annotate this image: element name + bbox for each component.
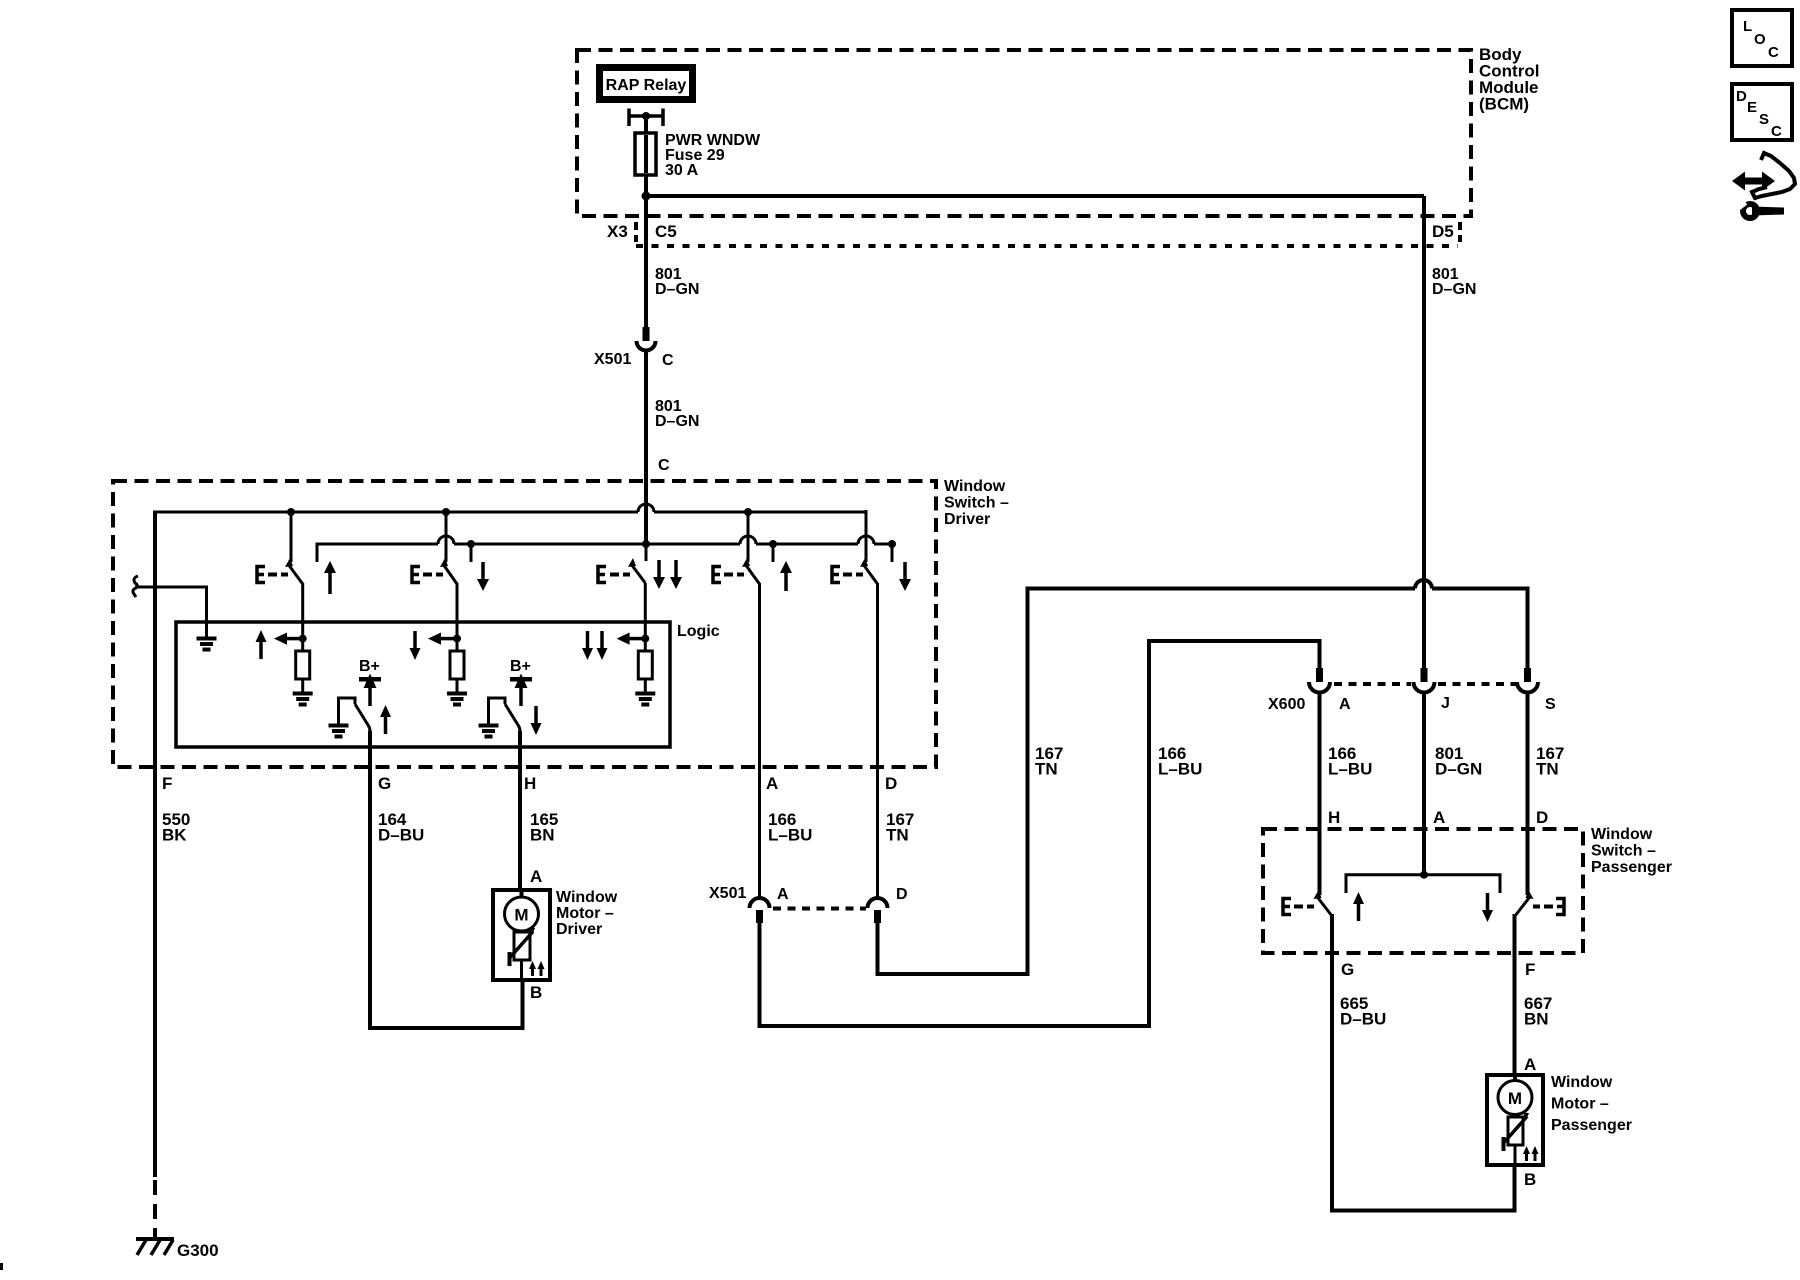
- Logic box: [176, 622, 670, 747]
- arrow up (logic 1): [256, 630, 267, 659]
- adjust icon double arrow: [1732, 172, 1775, 191]
- svg-text:G: G: [1341, 960, 1354, 979]
- svg-text:C: C: [1768, 44, 1779, 61]
- connector X501 pin A (male pin): [756, 910, 763, 923]
- arrow up (output G): [380, 705, 391, 734]
- connector X600 pin J (female cup): [1414, 682, 1435, 693]
- connector X600 link dashes J-S: [1438, 682, 1516, 686]
- junction dot logic input 2: [453, 635, 461, 643]
- resistor R1: [296, 651, 310, 679]
- svg-text:F: F: [1525, 960, 1535, 979]
- switch S2 label E: [412, 567, 443, 583]
- svg-text:L–BU: L–BU: [768, 826, 812, 845]
- switch SP2 label E (mirrored): [1533, 899, 1564, 915]
- connector X600 pin S (male pin): [1524, 668, 1531, 682]
- svg-text:A: A: [1339, 696, 1351, 713]
- switch S1 drop from bus B1: [290, 512, 293, 562]
- svg-text:B: B: [530, 983, 542, 1002]
- junction dot bus B2 stub 2: [769, 540, 777, 548]
- svg-text:Window: Window: [556, 889, 618, 906]
- svg-text:TN: TN: [1035, 760, 1058, 779]
- arrow down (S2 function): [477, 562, 489, 591]
- motor driver direction arrows: [529, 961, 545, 976]
- svg-text:O: O: [1754, 31, 1766, 48]
- svg-text:D–GN: D–GN: [1435, 760, 1482, 779]
- svg-text:M: M: [514, 906, 528, 925]
- svg-text:A: A: [766, 774, 778, 793]
- passenger feed bar from 801: [1346, 875, 1500, 893]
- connector X600 pin A (female cup): [1309, 682, 1330, 693]
- page corner mark: [0, 1263, 3, 1270]
- svg-text:A: A: [530, 867, 542, 886]
- wire 801 D-GN right drop from D5 to X600: [1422, 246, 1426, 668]
- svg-text:BN: BN: [530, 826, 555, 845]
- svg-text:D5: D5: [1432, 222, 1454, 241]
- wire S3 arm to logic input: [644, 583, 647, 651]
- wire D output (167) to X501: [876, 583, 879, 899]
- wire 166 L-BU run from X501-A to X600-A: [760, 641, 1320, 1026]
- motor M passenger (circle): [1498, 1075, 1532, 1115]
- arrows double-down (logic 3 express): [582, 631, 608, 660]
- switch S2 drop from bus B1 (under B2 hop): [445, 512, 448, 562]
- svg-text:RAP Relay: RAP Relay: [606, 77, 687, 94]
- RAP relay output terminal bracket: [629, 109, 663, 127]
- svg-text:TN: TN: [886, 826, 909, 845]
- connector X501 pin A (female cup): [750, 898, 770, 908]
- switch S4 arm: [742, 558, 760, 584]
- svg-text:Window: Window: [1591, 826, 1653, 843]
- svg-text:30 A: 30 A: [665, 162, 699, 179]
- ground (logic R3): [635, 694, 655, 705]
- svg-text:X501: X501: [709, 885, 746, 902]
- svg-text:B+: B+: [359, 658, 380, 675]
- wire A output (166) to X501: [758, 583, 761, 899]
- arrows double-down (S3 express function): [653, 560, 682, 589]
- wire label 801 D-GN (right): [1432, 266, 1476, 298]
- wire 801 D-GN below X600-J: [1422, 693, 1426, 875]
- svg-text:D: D: [896, 886, 908, 903]
- svg-text:D: D: [885, 774, 897, 793]
- LOC reference box: [1732, 10, 1792, 66]
- svg-text:S: S: [1545, 696, 1556, 713]
- junction dot bus B2 stub 1: [467, 540, 475, 548]
- resistor R2: [450, 651, 464, 679]
- switch S5 label E: [832, 567, 863, 583]
- svg-text:B: B: [1524, 1170, 1536, 1189]
- wire G passenger output (665): [1332, 914, 1515, 1211]
- wire F dashed lower section: [153, 1180, 157, 1240]
- svg-text:E: E: [1747, 99, 1757, 116]
- wire label 165 BN: [530, 810, 558, 845]
- wire label 167 TN: [886, 810, 914, 845]
- wire clip line to internal ground: [135, 587, 207, 637]
- switch S5 arm: [860, 558, 878, 584]
- svg-text:D–GN: D–GN: [655, 281, 699, 298]
- svg-text:A: A: [777, 886, 789, 903]
- switch S3 arm (express): [628, 558, 645, 583]
- bus B1 feed bus (hops over wire C at x=646): [155, 504, 866, 512]
- motor label Window Motor - Passenger: [1551, 1074, 1632, 1134]
- wire label 801 D-GN (left upper): [655, 266, 699, 298]
- svg-text:Passenger: Passenger: [1551, 1117, 1632, 1134]
- ground G300 (chassis): [136, 1239, 174, 1255]
- wire S1 arm to logic input: [301, 583, 304, 651]
- wire C drop through bus B1 to bus B2: [644, 481, 648, 544]
- svg-text:D: D: [1736, 88, 1747, 105]
- wire label 665 D-BU: [1340, 994, 1386, 1029]
- arrow up (S4 function): [780, 561, 792, 591]
- wire resistor R1 to ground: [301, 679, 304, 692]
- switch S4 drop from bus B1 (under B2 hop): [747, 512, 750, 562]
- svg-text:Switch –: Switch –: [1591, 843, 1656, 860]
- connector divider at D5: [1458, 222, 1462, 242]
- wire 167 TN run from X501-D to X600-S (hops over 801 drop): [878, 580, 1528, 974]
- switch S4 label E: [713, 567, 744, 583]
- svg-text:A: A: [1433, 808, 1445, 827]
- motor driver thermistor (circuit breaker): [510, 928, 536, 981]
- switch SG (logic output G): [339, 698, 371, 731]
- fuse value label: [665, 132, 761, 179]
- svg-text:D–GN: D–GN: [655, 413, 699, 430]
- wire label 166 L-BU: [768, 810, 812, 845]
- ground (driver switch internal, clip line): [197, 639, 217, 650]
- arrow down (logic 2): [410, 631, 421, 660]
- svg-text:Motor –: Motor –: [556, 905, 614, 922]
- svg-text:Window: Window: [944, 478, 1006, 495]
- wire 801 D-GN left drop from C5: [644, 246, 648, 327]
- B+ terminal symbol (output G driver): [359, 674, 381, 707]
- wire label 167 TN (passenger): [1536, 744, 1564, 779]
- B+ terminal symbol (output H driver): [510, 674, 532, 707]
- svg-text:L: L: [1743, 18, 1752, 35]
- wire 167 TN below X600-S: [1526, 693, 1530, 895]
- svg-text:D–BU: D–BU: [1340, 1010, 1386, 1029]
- svg-text:C5: C5: [655, 222, 677, 241]
- bus B2 contact stub 1: [470, 544, 473, 562]
- DESC reference box: [1732, 84, 1792, 140]
- svg-text:C: C: [1771, 123, 1782, 140]
- switch S2 arm: [440, 558, 457, 584]
- wire resistor R3 to ground: [644, 679, 647, 692]
- wire G output (164): [370, 731, 523, 1028]
- wire resistor R2 to ground: [456, 679, 459, 692]
- adjust icon outline arrow: [1752, 153, 1795, 198]
- wire label 167 TN (mid run): [1035, 744, 1063, 779]
- connector X501 pin C (male pin): [643, 327, 650, 341]
- svg-text:M: M: [1508, 1089, 1522, 1108]
- switch S3 label E: [598, 567, 630, 583]
- junction dot bus B2 at wire C feed: [642, 540, 650, 548]
- clip symbol (attachment) at left: [133, 576, 138, 597]
- wire label 801 D-GN (passenger): [1435, 744, 1482, 779]
- svg-text:Driver: Driver: [944, 511, 990, 528]
- junction dot logic input 3: [641, 635, 649, 643]
- svg-text:D–GN: D–GN: [1432, 281, 1476, 298]
- wire fuse down to junction: [644, 175, 648, 246]
- resistor R3: [638, 651, 652, 679]
- svg-text:B+: B+: [510, 658, 531, 675]
- Window Switch Driver dashed box: [113, 481, 936, 767]
- svg-text:J: J: [1441, 695, 1450, 712]
- switch S1 label E: [257, 567, 288, 583]
- adjust icon wrench: [1732, 198, 1784, 221]
- ground (output G switch): [329, 726, 349, 737]
- connector X600 pin A (male pin): [1316, 668, 1323, 682]
- arrow left (logic sense 3): [617, 633, 646, 645]
- motor M driver (circle): [505, 890, 539, 931]
- wire label 166 L-BU (passenger): [1328, 744, 1372, 779]
- svg-text:G: G: [378, 774, 391, 793]
- arrow left (logic sense 2): [428, 633, 457, 645]
- svg-text:Switch –: Switch –: [944, 495, 1009, 512]
- svg-text:G300: G300: [177, 1241, 219, 1260]
- arrow up (passenger switch up): [1353, 892, 1364, 921]
- BCM connector edge dotted line: [636, 244, 1458, 248]
- Window Switch Driver label: [944, 478, 1009, 528]
- connector X501 pin C (female cup): [637, 341, 656, 351]
- ground (output H switch): [479, 726, 499, 737]
- svg-text:Driver: Driver: [556, 921, 602, 938]
- wire right drop inside BCM: [1422, 196, 1426, 246]
- arrow down (output H): [531, 706, 542, 735]
- wire S2 arm to logic input: [456, 583, 459, 651]
- Body Control Module (BCM) dashed box: [577, 50, 1471, 216]
- svg-text:D: D: [1536, 808, 1548, 827]
- svg-text:X501: X501: [594, 351, 631, 368]
- switch SP1 label E: [1283, 899, 1314, 915]
- switch S1 arm: [285, 558, 303, 584]
- wire H output (165) to motor A: [518, 731, 522, 890]
- svg-text:S: S: [1759, 111, 1769, 128]
- connector divider X3/C5: [634, 222, 638, 242]
- junction dot bus B1 at switch S2: [442, 508, 450, 516]
- motor label Window Motor - Driver: [556, 889, 618, 938]
- motor passenger direction arrows: [1523, 1146, 1539, 1161]
- connector X600 pin S (female cup): [1517, 682, 1538, 693]
- svg-text:L–BU: L–BU: [1158, 760, 1202, 779]
- connector X501 link dashes A-D: [773, 907, 866, 911]
- wire 801 D-GN below X501: [644, 351, 648, 481]
- connector X501 pin D (female cup): [868, 898, 888, 908]
- svg-text:A: A: [1524, 1055, 1536, 1074]
- BCM label text: [1479, 45, 1539, 114]
- junction dot bus B1 at switch S1: [287, 508, 295, 516]
- Window Switch Passenger label: [1591, 826, 1672, 876]
- svg-text:X3: X3: [607, 222, 628, 241]
- bus B2 contact stub 2: [772, 544, 775, 562]
- connector X600 link dashes A-J: [1334, 682, 1411, 686]
- svg-text:H: H: [1328, 808, 1340, 827]
- wire relay to fuse: [644, 116, 648, 133]
- ground (logic R1): [293, 694, 313, 705]
- arrow up (S1 function): [324, 561, 336, 594]
- Window Switch Passenger dashed box: [1263, 829, 1583, 953]
- wire label 164 D-BU: [378, 810, 424, 845]
- svg-text:D–BU: D–BU: [378, 826, 424, 845]
- switch S3 stub from bus B2: [645, 544, 648, 561]
- bus B2 contact stub 3: [891, 544, 894, 562]
- junction dot at fuse output: [642, 192, 651, 201]
- svg-text:BK: BK: [162, 826, 187, 845]
- wire junction to right side (BCM internal feed): [646, 194, 1424, 198]
- wire F ground path (bus B1 left corner to G300): [153, 511, 157, 1178]
- svg-text:TN: TN: [1536, 760, 1559, 779]
- wire label 801 D-GN (left lower): [655, 398, 699, 430]
- wire label 550 BK: [162, 810, 190, 845]
- relay K RAP Relay box: [600, 68, 693, 100]
- junction dot bus B1 at switch S4: [744, 508, 752, 516]
- wire F passenger output (667) to motor A: [1513, 914, 1517, 1075]
- svg-text:X600: X600: [1268, 696, 1305, 713]
- wire label 667 BN: [1524, 994, 1552, 1029]
- wire 166 L-BU below X600-A: [1318, 693, 1322, 895]
- motor passenger thermistor (circuit breaker): [1504, 1113, 1530, 1166]
- svg-text:BN: BN: [1524, 1010, 1549, 1029]
- svg-text:Window: Window: [1551, 1074, 1613, 1091]
- svg-text:(BCM): (BCM): [1479, 95, 1529, 114]
- switch SP2 arm (passenger down): [1515, 890, 1534, 916]
- switch SH (logic output H): [489, 698, 521, 731]
- junction dot logic input 1: [299, 635, 307, 643]
- wire label 166 L-BU (mid run): [1158, 744, 1202, 779]
- arrow down (passenger switch down): [1482, 893, 1493, 922]
- junction dot passenger feed: [1420, 871, 1428, 879]
- svg-text:C: C: [662, 352, 674, 369]
- connector X501 pin D (male pin): [874, 910, 881, 923]
- svg-text:H: H: [524, 774, 536, 793]
- ground (logic R2): [447, 694, 467, 705]
- arrow left (logic sense 1): [274, 633, 303, 645]
- bus B2 lower bus (hops over S2,S4,S5 drops): [317, 536, 892, 562]
- Window Motor Driver box: [493, 890, 550, 980]
- switch SP1 arm (passenger up): [1314, 890, 1333, 916]
- connector X600 pin J (male pin): [1421, 668, 1428, 682]
- svg-text:Passenger: Passenger: [1591, 859, 1672, 876]
- switch S5 drop from bus B1 corner (under B2 hop): [865, 510, 868, 562]
- svg-text:Logic: Logic: [677, 623, 720, 640]
- svg-text:L–BU: L–BU: [1328, 760, 1372, 779]
- svg-text:C: C: [658, 457, 670, 474]
- Window Motor Passenger box: [1487, 1075, 1543, 1165]
- svg-text:Motor –: Motor –: [1551, 1096, 1609, 1113]
- svg-text:F: F: [162, 774, 172, 793]
- fuse F29 PWR WNDW Fuse 29 30 A: [635, 133, 656, 175]
- arrow down (S5 function): [899, 562, 911, 591]
- junction dot bus B2 right end: [888, 540, 896, 548]
